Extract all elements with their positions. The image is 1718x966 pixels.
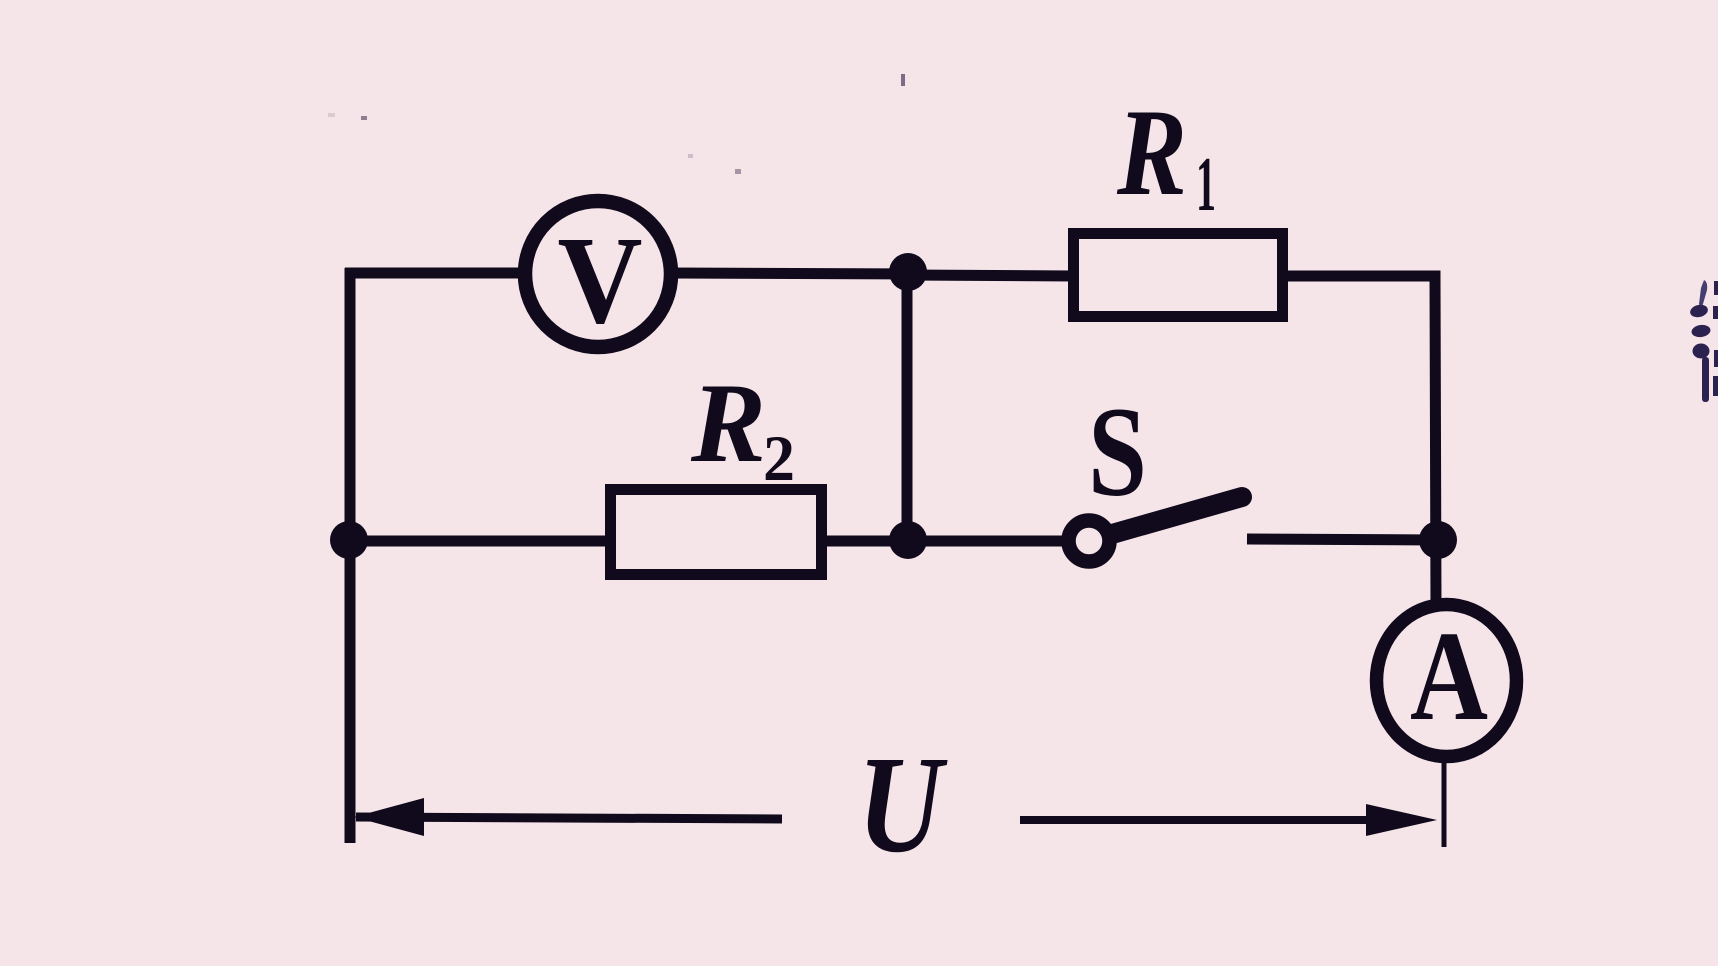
svg-text:A: A [1410, 605, 1488, 747]
svg-text:R: R [690, 361, 766, 486]
svg-text:U: U [858, 728, 949, 882]
svg-text:V: V [558, 212, 643, 350]
svg-text:1: 1 [1196, 141, 1216, 227]
svg-text:S: S [1088, 381, 1147, 523]
svg-text:R: R [1116, 84, 1187, 221]
svg-text:2: 2 [763, 423, 795, 495]
